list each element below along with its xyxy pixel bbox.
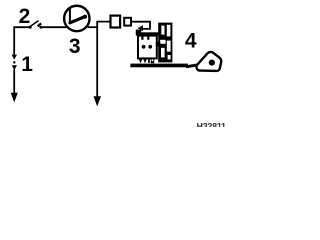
gauge 3 pivot line bbox=[69, 9, 71, 23]
junction riser to connector bbox=[97, 22, 110, 28]
switch 2 left contact bbox=[29, 26, 32, 29]
dashed break dot bbox=[13, 61, 15, 63]
arrowhead pointing at device terminal bbox=[137, 25, 143, 31]
connector box A bbox=[111, 16, 121, 28]
connector box B bbox=[124, 18, 131, 26]
device 4 bracket bbox=[158, 23, 172, 63]
device 4 terminal foot b bbox=[143, 58, 147, 63]
gauge 3 needle end dot bbox=[83, 15, 87, 19]
svg-text:2: 2 bbox=[19, 5, 31, 28]
svg-text:1: 1 bbox=[21, 53, 33, 76]
svg-text:H32811: H32811 bbox=[197, 122, 226, 127]
ring terminal lug bbox=[196, 52, 221, 71]
device 4 terminal pin bbox=[148, 58, 150, 63]
device 4 terminal block bbox=[151, 58, 154, 64]
gauge 3 needle bbox=[70, 17, 84, 23]
wire switch to gauge bbox=[42, 26, 67, 28]
wire supply corner (left vertical + horizontal to switch) bbox=[14, 27, 30, 55]
arrowhead bottom left bbox=[11, 93, 18, 103]
device 4 rivet dot b bbox=[148, 45, 152, 49]
ring terminal hole bbox=[209, 60, 215, 66]
device 4 rivet dot a bbox=[142, 45, 146, 49]
arrowhead wire resume bbox=[12, 65, 17, 70]
device 4 lid step bbox=[136, 30, 141, 33]
wire gauge to junction bbox=[88, 26, 99, 28]
device 4 body bbox=[138, 36, 157, 59]
device 4 lid bbox=[136, 32, 159, 35]
switch 2 right contact bbox=[39, 26, 42, 29]
device 4 link to bracket bbox=[156, 42, 160, 47]
wire baseline to lug bbox=[186, 65, 198, 67]
arrowhead wire break upper bbox=[12, 55, 17, 60]
device 4 terminal foot a bbox=[139, 58, 143, 63]
switch 2 blade tip dash bbox=[38, 23, 42, 26]
arrowhead bottom middle bbox=[94, 96, 102, 106]
mounting baseline bbox=[130, 64, 188, 68]
svg-text:4: 4 bbox=[185, 30, 197, 53]
svg-text:3: 3 bbox=[69, 35, 81, 58]
gauge 3 circle bbox=[64, 6, 89, 31]
wire hook from connector to device bbox=[132, 22, 151, 29]
wire down to left ground arrow bbox=[13, 70, 15, 94]
device 4 inner tab b bbox=[147, 36, 149, 40]
switch 2 blade bbox=[29, 21, 39, 28]
device 4 inner tab a bbox=[141, 36, 143, 40]
wire junction down to middle ground arrow bbox=[96, 27, 98, 97]
